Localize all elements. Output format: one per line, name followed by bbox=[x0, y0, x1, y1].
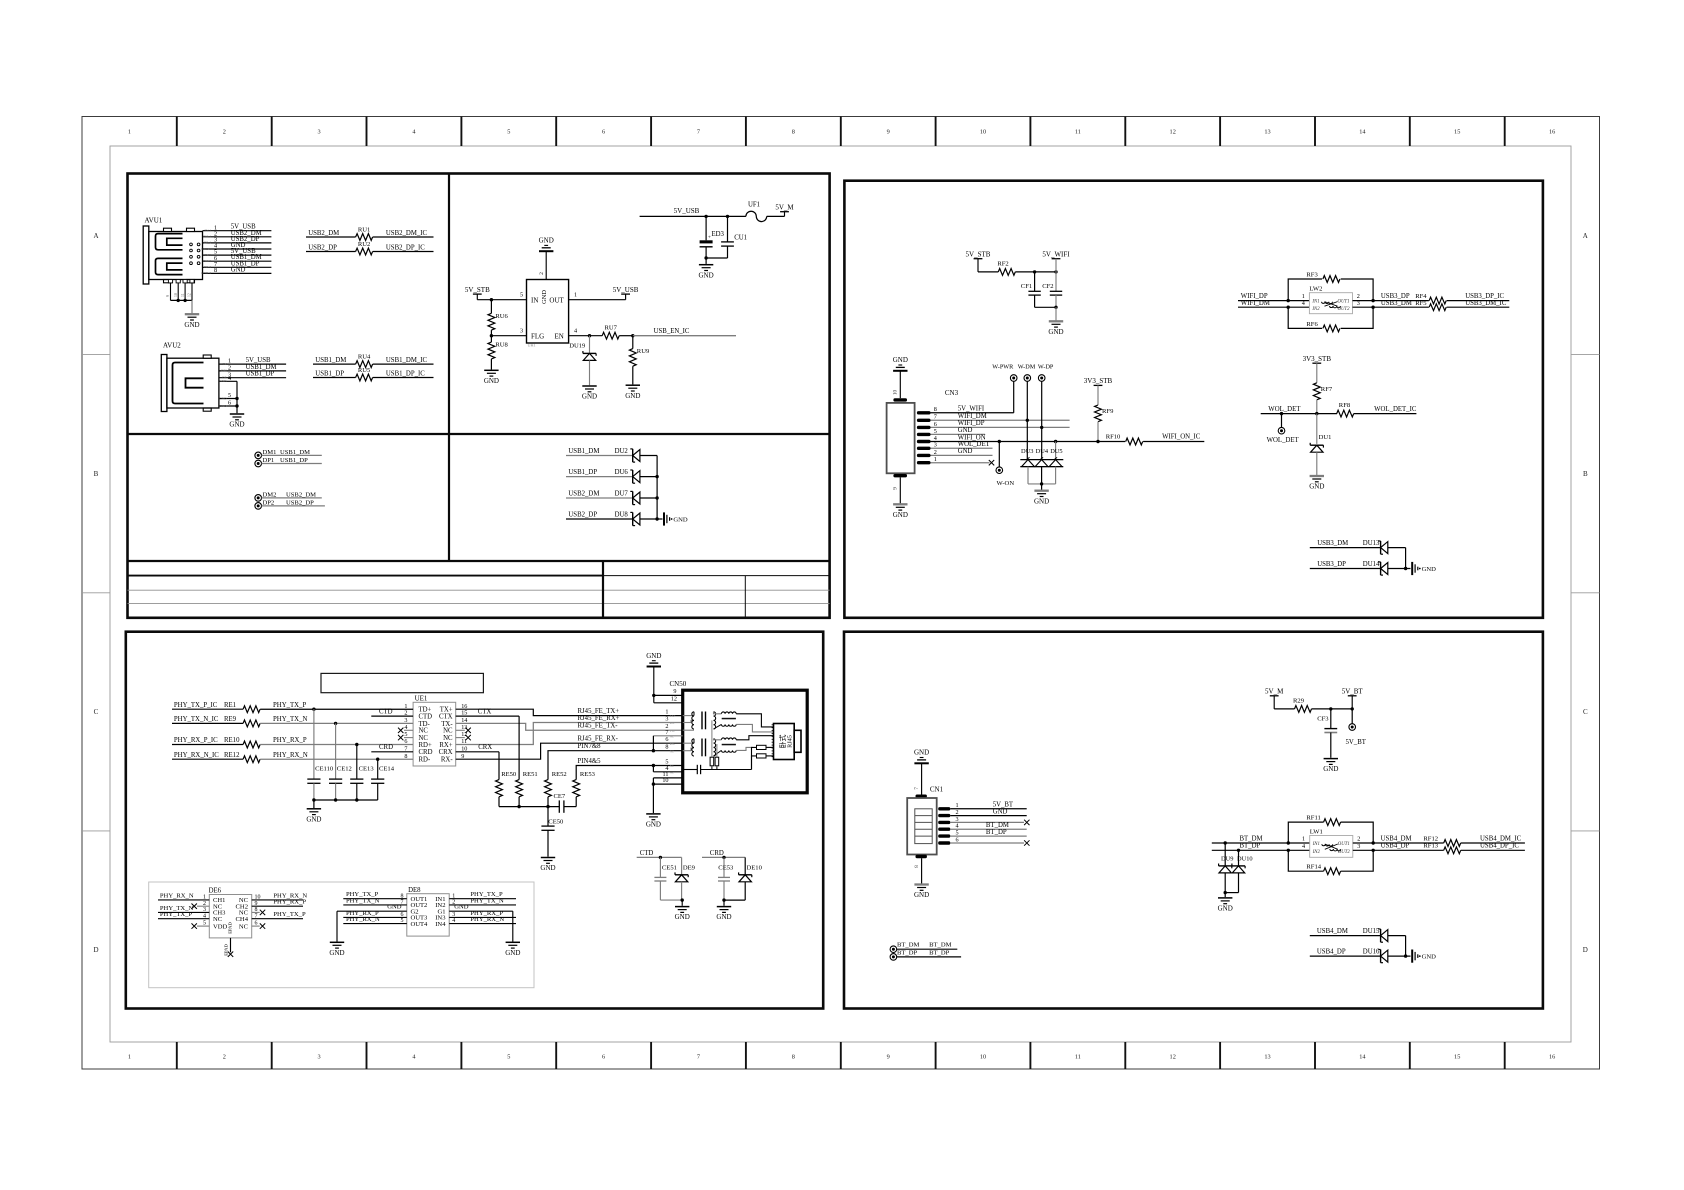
AVU2 pin 4 wire bbox=[219, 375, 237, 383]
svg-text:GND: GND bbox=[716, 913, 731, 921]
svg-text:8: 8 bbox=[792, 1054, 795, 1061]
svg-text:GND: GND bbox=[993, 808, 1008, 815]
svg-text:BT_DP: BT_DP bbox=[986, 829, 1007, 836]
resistor RU5 bbox=[356, 367, 373, 381]
AVU2 pin 5 wire bbox=[219, 392, 237, 400]
CN3 pin 6 wire bbox=[917, 420, 1070, 429]
wire PHY_TX_N_IC bbox=[172, 716, 243, 723]
svg-text:3: 3 bbox=[665, 716, 668, 723]
svg-text:RU9: RU9 bbox=[637, 348, 650, 355]
CN50 jack small parts bbox=[752, 745, 774, 769]
pad 5V_BT bbox=[1346, 709, 1367, 746]
svg-text:USB1_DP: USB1_DP bbox=[315, 370, 344, 377]
svg-text:5V_USB: 5V_USB bbox=[674, 207, 700, 215]
CN50 pin 12 wire bbox=[654, 696, 683, 703]
svg-text:7: 7 bbox=[697, 1054, 700, 1061]
svg-text:1: 1 bbox=[574, 292, 577, 299]
wire CE ground bus bbox=[312, 798, 378, 808]
svg-text:GND: GND bbox=[673, 516, 688, 523]
no-connect CN1 pin3 bbox=[1024, 820, 1029, 825]
resistor RF5 bbox=[1429, 300, 1509, 310]
svg-text:D: D bbox=[1583, 946, 1588, 954]
ground flag above CN3 bbox=[893, 356, 908, 398]
sheet inner border bbox=[110, 146, 1571, 1042]
svg-text:3: 3 bbox=[520, 328, 523, 335]
diode DU14 bbox=[1310, 561, 1411, 575]
svg-text:NC: NC bbox=[419, 728, 429, 735]
svg-text:RF13: RF13 bbox=[1423, 843, 1438, 850]
svg-text:15: 15 bbox=[1454, 129, 1460, 136]
svg-text:GND: GND bbox=[893, 356, 908, 364]
no-connect DE6 pin8 bbox=[252, 910, 266, 915]
svg-text:PHY_TX_N_IC: PHY_TX_N_IC bbox=[174, 716, 219, 723]
svg-text:12: 12 bbox=[671, 696, 677, 703]
wire CE51-DE9 bus bbox=[660, 898, 684, 905]
test pad DP2 bbox=[255, 499, 325, 509]
svg-text:5: 5 bbox=[934, 428, 937, 435]
svg-text:PHY_RX_P: PHY_RX_P bbox=[273, 737, 307, 744]
ground DE8 right bbox=[505, 942, 520, 957]
svg-text:CRD: CRD bbox=[379, 744, 393, 751]
svg-text:GND: GND bbox=[484, 377, 499, 385]
svg-text:1: 1 bbox=[934, 456, 937, 463]
svg-text:USB2_DP: USB2_DP bbox=[286, 499, 314, 506]
svg-text:PIN7&8: PIN7&8 bbox=[578, 743, 602, 750]
svg-text:DU5: DU5 bbox=[1050, 448, 1062, 455]
CN50 pin 7 label bbox=[665, 729, 674, 739]
svg-text:DM1: DM1 bbox=[263, 449, 277, 456]
wire WIFI_DP bbox=[1238, 293, 1309, 302]
wire DE8 pin5 PHY_RX_N bbox=[343, 916, 407, 924]
zener DU1 bbox=[1310, 414, 1331, 476]
resistor RF13 bbox=[1444, 843, 1525, 854]
wire DE8 pin8 PHY_TX_P bbox=[343, 891, 407, 899]
ground CN3 bottom bbox=[893, 477, 908, 519]
svg-text:12: 12 bbox=[188, 293, 192, 297]
svg-text:4: 4 bbox=[1302, 300, 1305, 307]
resistor RF7 bbox=[1313, 383, 1332, 414]
svg-text:3V3_STB: 3V3_STB bbox=[1084, 377, 1113, 385]
column numbers top bbox=[128, 129, 1555, 136]
AVU1 pin 7 wire USB1_DP bbox=[203, 260, 272, 269]
resistor RE51 bbox=[516, 771, 538, 806]
AVU2 ground wire bbox=[235, 381, 238, 413]
svg-text:5V_M: 5V_M bbox=[775, 204, 794, 212]
svg-text:5V_BT: 5V_BT bbox=[1342, 688, 1364, 696]
svg-text:BT_DP: BT_DP bbox=[929, 949, 949, 956]
svg-text:W-DP: W-DP bbox=[1038, 364, 1054, 371]
svg-text:GND: GND bbox=[219, 404, 227, 408]
svg-text:3V3_STB: 3V3_STB bbox=[1303, 355, 1332, 363]
svg-text:USB2_DP_IC: USB2_DP_IC bbox=[386, 244, 425, 251]
svg-text:CE53: CE53 bbox=[718, 865, 734, 872]
resistor RE52 bbox=[545, 771, 567, 806]
wire USB3_DP bbox=[1353, 293, 1429, 302]
svg-text:CE13: CE13 bbox=[359, 766, 375, 773]
connector AVU2 bbox=[161, 342, 219, 412]
wire PHY_TX_P bbox=[260, 702, 413, 711]
svg-text:DP2: DP2 bbox=[263, 499, 275, 506]
svg-text:GND: GND bbox=[893, 511, 908, 519]
svg-text:RU8: RU8 bbox=[495, 342, 508, 349]
svg-text:DM-2: DM-2 bbox=[203, 259, 211, 263]
svg-text:RE52: RE52 bbox=[552, 771, 567, 778]
svg-text:3: 3 bbox=[1357, 843, 1360, 850]
wire termination bus bbox=[499, 805, 576, 808]
svg-text:EPAD: EPAD bbox=[224, 944, 229, 956]
CN3 pin 2 wire bbox=[917, 448, 993, 457]
svg-text:GND: GND bbox=[229, 421, 244, 429]
wire PHY_RX_P_IC bbox=[172, 737, 243, 744]
svg-text:RF9: RF9 bbox=[1102, 408, 1114, 415]
capacitor CE110 bbox=[307, 709, 334, 800]
svg-text:W-DM: W-DM bbox=[1018, 364, 1036, 371]
svg-text:USB3_DM: USB3_DM bbox=[1381, 300, 1412, 307]
svg-text:CTX: CTX bbox=[478, 709, 492, 716]
svg-text:FLG: FLG bbox=[531, 332, 544, 340]
svg-text:TX-: TX- bbox=[670, 729, 675, 733]
wire 5V_STB to IN pin 5 bbox=[477, 292, 526, 302]
resistor RU6 bbox=[488, 300, 509, 336]
svg-text:CE14: CE14 bbox=[379, 766, 395, 773]
common-mode choke LW2 bbox=[1309, 286, 1352, 314]
capacitor CE51 bbox=[654, 857, 677, 900]
power flag 5V_WIFI bbox=[1042, 251, 1070, 272]
svg-text:4: 4 bbox=[574, 328, 577, 335]
zener DE9 bbox=[675, 857, 696, 900]
resistor RF14 bypass bbox=[1288, 850, 1373, 874]
svg-text:CRD: CRD bbox=[710, 850, 724, 857]
diode DU8 bbox=[566, 512, 657, 526]
svg-text:7: 7 bbox=[914, 787, 920, 790]
svg-text:BT_DM: BT_DM bbox=[929, 942, 951, 949]
common-mode choke LW1 bbox=[1310, 829, 1353, 858]
svg-text:DU7: DU7 bbox=[615, 491, 629, 498]
svg-text:DE9: DE9 bbox=[683, 865, 696, 872]
svg-text:GND: GND bbox=[1422, 566, 1437, 573]
svg-text:OUT: OUT bbox=[549, 296, 564, 304]
svg-text:BT_DP: BT_DP bbox=[1240, 843, 1261, 850]
svg-text:6: 6 bbox=[602, 1054, 605, 1061]
svg-text:AVU1: AVU1 bbox=[145, 217, 163, 225]
svg-text:USB1_DP: USB1_DP bbox=[246, 371, 275, 378]
wire DE6 pin10 PHY_RX_N bbox=[252, 892, 308, 900]
svg-text:11: 11 bbox=[1075, 1054, 1081, 1061]
svg-text:NC: NC bbox=[670, 770, 674, 774]
ground CRD cell bbox=[716, 907, 731, 922]
svg-text:RX-: RX- bbox=[441, 757, 453, 764]
svg-text:11: 11 bbox=[181, 293, 185, 297]
wire DE6 pin7 PHY_TX_P bbox=[252, 911, 306, 919]
svg-text:RF10: RF10 bbox=[1106, 434, 1121, 441]
wire CRD bbox=[371, 744, 413, 752]
svg-text:DM-1: DM-1 bbox=[203, 235, 211, 239]
svg-text:DU4: DU4 bbox=[1036, 448, 1049, 455]
svg-text:RE12: RE12 bbox=[224, 752, 240, 759]
svg-text:CE12: CE12 bbox=[337, 766, 352, 773]
svg-text:IN1: IN1 bbox=[1311, 300, 1319, 305]
svg-text:GND: GND bbox=[625, 392, 640, 400]
zener DE10 bbox=[739, 857, 763, 900]
CN50 pin4 jumper wire bbox=[652, 764, 683, 772]
svg-text:CN50: CN50 bbox=[670, 680, 687, 688]
ground AVU2 bbox=[229, 414, 244, 429]
wire USB1_DP_IC bbox=[373, 370, 434, 377]
no-connect UE1 pins 13,12 bbox=[456, 728, 471, 741]
zener DU19 bbox=[569, 336, 596, 386]
svg-text:4: 4 bbox=[228, 375, 231, 382]
resistor RF11 bypass bbox=[1288, 815, 1373, 844]
svg-text:RF4: RF4 bbox=[1415, 293, 1427, 300]
svg-text:GND: GND bbox=[219, 396, 227, 400]
capacitor CE53 bbox=[718, 857, 734, 900]
svg-text:NC: NC bbox=[239, 923, 249, 930]
wire CRD node bbox=[702, 850, 745, 859]
svg-text:8: 8 bbox=[934, 406, 937, 413]
svg-text:2: 2 bbox=[1357, 835, 1360, 842]
svg-text:GND: GND bbox=[1034, 497, 1049, 505]
svg-text:WOL_DET: WOL_DET bbox=[958, 441, 991, 448]
svg-text:WIFI_DP: WIFI_DP bbox=[958, 420, 985, 427]
IC UH1 power switch bbox=[527, 280, 569, 348]
svg-text:RJ45_FE_RX+: RJ45_FE_RX+ bbox=[578, 715, 620, 722]
title table bbox=[128, 561, 830, 618]
svg-text:USB4_DP: USB4_DP bbox=[1317, 949, 1346, 956]
ground CE caps bbox=[306, 809, 321, 824]
svg-text:14: 14 bbox=[1359, 1054, 1366, 1061]
no-connect DE6 pin6 bbox=[252, 923, 266, 928]
wire DE6 pin3 PHY_TX_N bbox=[158, 905, 209, 913]
connector CN3 bbox=[887, 389, 959, 477]
svg-text:DM2: DM2 bbox=[263, 491, 277, 498]
svg-text:13: 13 bbox=[1264, 129, 1270, 136]
svg-text:OUT1: OUT1 bbox=[1338, 842, 1350, 847]
wire BT_DM bbox=[1212, 835, 1310, 844]
svg-text:CE7: CE7 bbox=[554, 793, 566, 800]
ground AVU1 bbox=[184, 314, 199, 329]
svg-text:W-ON: W-ON bbox=[997, 480, 1015, 487]
svg-text:7: 7 bbox=[934, 414, 937, 421]
svg-text:DP-1: DP-1 bbox=[204, 241, 211, 245]
IC DE8 bbox=[401, 887, 456, 936]
svg-text:PHY_RX_N: PHY_RX_N bbox=[346, 916, 380, 923]
svg-text:PHY_RX_N_IC: PHY_RX_N_IC bbox=[174, 752, 219, 759]
wire USB1_DM bbox=[313, 357, 356, 364]
svg-text:1: 1 bbox=[128, 129, 131, 136]
svg-text:USB2_DP: USB2_DP bbox=[308, 244, 337, 251]
svg-text:9: 9 bbox=[887, 129, 890, 136]
ground DU3/DU4/DU5 bbox=[1034, 491, 1049, 506]
svg-text:RX-: RX- bbox=[670, 742, 675, 746]
svg-text:9: 9 bbox=[166, 295, 170, 297]
svg-text:RF12: RF12 bbox=[1423, 835, 1438, 842]
resistor RF3 bypass bbox=[1288, 272, 1373, 301]
CN50 pin 8 label bbox=[665, 744, 674, 754]
wire PHY_RX_N_IC bbox=[172, 752, 243, 759]
capacitor CE14 bbox=[371, 759, 395, 800]
svg-text:NC: NC bbox=[670, 764, 674, 768]
wire CRX bbox=[456, 744, 499, 779]
svg-text:5V: 5V bbox=[222, 362, 227, 366]
AVU1 pin 4 wire GND bbox=[201, 242, 271, 251]
svg-text:RU4: RU4 bbox=[358, 354, 371, 361]
svg-text:USB4_DM_IC: USB4_DM_IC bbox=[1480, 835, 1522, 842]
svg-text:13: 13 bbox=[1264, 1054, 1270, 1061]
resistor RE10 bbox=[243, 741, 260, 748]
svg-text:B: B bbox=[1583, 470, 1588, 478]
svg-text:CF3: CF3 bbox=[1317, 716, 1329, 723]
svg-text:UF1: UF1 bbox=[748, 202, 760, 209]
IC DE6 bbox=[203, 888, 261, 938]
svg-text:2: 2 bbox=[1357, 293, 1360, 300]
CN50 T1 output wires bbox=[736, 714, 773, 732]
svg-text:AVU2: AVU2 bbox=[163, 342, 181, 350]
ground CE50 bbox=[540, 858, 555, 873]
AVU1 pin 6 wire USB1_DM bbox=[203, 254, 272, 263]
BT block border bbox=[844, 632, 1543, 1009]
svg-text:RD-: RD- bbox=[419, 757, 431, 764]
svg-text:OUT1: OUT1 bbox=[1338, 300, 1350, 305]
svg-text:WIFI_DM: WIFI_DM bbox=[1241, 300, 1270, 307]
CN3 pin 1 wire bbox=[917, 456, 990, 464]
resistor RF4 bbox=[1429, 293, 1509, 304]
svg-text:DU6: DU6 bbox=[615, 469, 629, 476]
svg-text:8: 8 bbox=[914, 865, 920, 868]
resistor RF12 bbox=[1444, 835, 1525, 846]
svg-text:8: 8 bbox=[214, 267, 217, 274]
svg-text:GND: GND bbox=[541, 290, 548, 304]
svg-text:4: 4 bbox=[1302, 843, 1305, 850]
ground CF1/CF2 bbox=[1048, 321, 1063, 336]
svg-text:DU19: DU19 bbox=[569, 343, 586, 350]
svg-text:PHY_RX_N: PHY_RX_N bbox=[273, 752, 308, 759]
power flag 5V_STB wifi bbox=[966, 251, 999, 272]
svg-text:USB4_DM: USB4_DM bbox=[1317, 928, 1348, 935]
svg-text:5V_M: 5V_M bbox=[1265, 688, 1284, 696]
svg-text:GND-2: GND-2 bbox=[201, 271, 211, 275]
svg-text:PHY_TX_N: PHY_TX_N bbox=[346, 897, 380, 904]
AVU1 pin 3 wire USB2_DP bbox=[203, 236, 272, 245]
capacitor CF3 bbox=[1317, 709, 1337, 758]
wire WIFI_ON_IC bbox=[1143, 434, 1204, 442]
svg-text:5: 5 bbox=[507, 129, 510, 136]
svg-text:6: 6 bbox=[665, 736, 668, 743]
svg-text:GND: GND bbox=[1048, 328, 1063, 336]
resistor R29 bbox=[1293, 697, 1354, 712]
svg-text:IN2: IN2 bbox=[1312, 850, 1321, 855]
CN1 pin 3 wire bbox=[938, 816, 1024, 824]
svg-text:5: 5 bbox=[520, 292, 523, 299]
wire 5V_USB bbox=[640, 207, 746, 218]
svg-text:UH1: UH1 bbox=[528, 343, 536, 348]
svg-text:D: D bbox=[93, 946, 98, 954]
svg-text:DE8: DE8 bbox=[408, 887, 421, 894]
svg-text:DP1: DP1 bbox=[263, 457, 275, 464]
svg-text:PHY_TX_P: PHY_TX_P bbox=[273, 702, 306, 709]
diode DU15 bbox=[1310, 928, 1406, 956]
svg-text:DU9: DU9 bbox=[1221, 856, 1233, 863]
TVS diodes DU3 DU4 DU5 bbox=[1020, 440, 1063, 490]
svg-text:RF5: RF5 bbox=[1415, 300, 1427, 307]
svg-text:RF3: RF3 bbox=[1306, 272, 1318, 279]
wire PIN7&8 bbox=[548, 743, 683, 780]
svg-text:15: 15 bbox=[1454, 1054, 1460, 1061]
svg-text:W-PWR: W-PWR bbox=[992, 364, 1014, 371]
svg-text:R29: R29 bbox=[1293, 697, 1305, 704]
svg-text:USB1_DM: USB1_DM bbox=[280, 449, 310, 456]
capacitor CE50 bbox=[541, 807, 564, 857]
svg-text:GND: GND bbox=[958, 448, 973, 455]
svg-text:USB4_DM: USB4_DM bbox=[1381, 835, 1412, 842]
svg-text:UE1: UE1 bbox=[415, 694, 428, 702]
svg-text:USB1_DP_IC: USB1_DP_IC bbox=[386, 370, 425, 377]
svg-text:RX+: RX+ bbox=[439, 742, 452, 749]
svg-text:GND: GND bbox=[675, 913, 690, 921]
svg-text:RF8: RF8 bbox=[1339, 402, 1351, 409]
svg-text:9: 9 bbox=[673, 688, 676, 695]
power flag 5V_STB bbox=[465, 286, 490, 300]
svg-text:DU15: DU15 bbox=[1363, 928, 1380, 935]
AVU1 pin 1 wire 5V_USB bbox=[203, 224, 272, 233]
row letters bbox=[93, 232, 1587, 954]
CN1 pin 4 wire bbox=[938, 822, 1026, 831]
sheet outer border bbox=[82, 117, 1600, 1070]
svg-text:8: 8 bbox=[665, 744, 668, 751]
svg-text:RE51: RE51 bbox=[523, 771, 538, 778]
svg-text:7: 7 bbox=[697, 129, 700, 136]
svg-text:PHY_RX_N: PHY_RX_N bbox=[160, 892, 194, 899]
resistor RU7 bbox=[602, 325, 619, 340]
wire DE8 pin6 PHY_RX_P bbox=[343, 910, 407, 918]
test pad DM1 bbox=[255, 449, 322, 459]
svg-text:USB_EN_IC: USB_EN_IC bbox=[654, 328, 690, 335]
svg-text:8: 8 bbox=[792, 129, 795, 136]
svg-text:CTD: CTD bbox=[379, 709, 393, 716]
IC UE1 transformer bbox=[404, 694, 467, 766]
svg-text:5: 5 bbox=[228, 392, 231, 399]
svg-text:C: C bbox=[94, 708, 99, 716]
svg-text:USB3_DP: USB3_DP bbox=[1317, 561, 1346, 568]
svg-text:GND: GND bbox=[539, 237, 554, 245]
svg-text:USB2_DM: USB2_DM bbox=[568, 491, 599, 498]
svg-text:GND: GND bbox=[582, 393, 597, 401]
CN3 pin 5 wire bbox=[917, 427, 985, 436]
capacitor CE7 bbox=[554, 793, 566, 813]
svg-text:PHY_RX_P: PHY_RX_P bbox=[273, 899, 306, 906]
wire TX+ to RJ45_FE_TX+ bbox=[456, 708, 683, 716]
svg-text:3: 3 bbox=[934, 442, 937, 449]
svg-text:A: A bbox=[93, 232, 98, 240]
svg-text:BT_DM: BT_DM bbox=[897, 942, 919, 949]
wire PHY_RX_P bbox=[260, 737, 413, 746]
resistor RE9 bbox=[243, 720, 260, 727]
resistor RU8 bbox=[488, 336, 509, 370]
wire CF1-CF2 bus bbox=[1035, 306, 1058, 321]
svg-text:RX+: RX+ bbox=[670, 721, 676, 725]
svg-text:USB2_DM: USB2_DM bbox=[286, 491, 316, 498]
AVU1 pin 2 wire USB2_DM bbox=[203, 230, 272, 239]
wire USB_EN_IC bbox=[619, 328, 736, 337]
svg-text:GND: GND bbox=[646, 821, 661, 829]
svg-text:6: 6 bbox=[228, 400, 231, 407]
wire FLG pin 3 bbox=[490, 328, 527, 338]
svg-text:LW1: LW1 bbox=[1310, 829, 1323, 836]
svg-text:GND: GND bbox=[329, 949, 344, 957]
Ethernet block border bbox=[126, 632, 823, 1009]
wire CTD node bbox=[637, 850, 682, 859]
svg-text:1: 1 bbox=[1302, 835, 1305, 842]
svg-text:IN1: IN1 bbox=[1312, 842, 1320, 847]
